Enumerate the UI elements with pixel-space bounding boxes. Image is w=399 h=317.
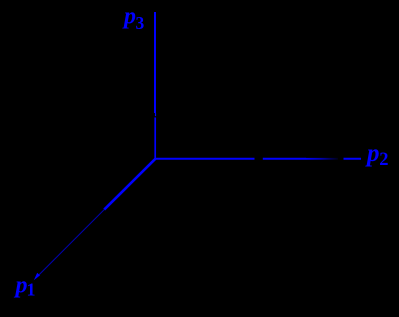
leg p1 arrowhead <box>34 273 40 281</box>
leg p2 end dash <box>344 158 362 160</box>
leg p1 thin segment <box>36 210 104 278</box>
svg-text:p: p <box>14 273 28 299</box>
svg-text:1: 1 <box>27 280 36 300</box>
leg p3 arrow stub <box>155 113 157 116</box>
leg p2 inner segment (horizontal wire from vertex) <box>155 158 255 160</box>
svg-text:p: p <box>122 3 136 29</box>
leg p2 middle segment after gap <box>263 158 306 160</box>
leg p2 fading segment <box>306 158 338 160</box>
svg-text:2: 2 <box>379 150 388 170</box>
leg p3 lower segment (wire to vertex) <box>154 117 156 159</box>
svg-text:3: 3 <box>136 13 145 33</box>
leg p3 upper segment (vertical line) <box>154 12 156 113</box>
leg p1 thick segment from vertex (diagonal) <box>104 159 155 210</box>
svg-text:p: p <box>365 140 380 167</box>
